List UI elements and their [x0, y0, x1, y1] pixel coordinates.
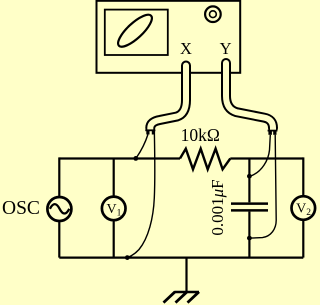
oscilloscope body [97, 1, 241, 73]
Y shield wire [251, 135, 277, 238]
junction node A (X pin to top wire) [133, 156, 138, 161]
resistor R 10k zigzag [180, 149, 230, 170]
voltmeter V2 [292, 196, 316, 220]
junction node C (Y pin to capacitor top) [247, 174, 252, 179]
wire: top horizontal (right of resistor) [230, 157, 303, 159]
wire: top horizontal (left of resistor) [59, 157, 180, 159]
svg-text:OSC: OSC [2, 198, 40, 219]
junction node B (X shield to bottom wire) [125, 255, 130, 260]
X probe cable [150, 66, 186, 132]
Y probe cable [226, 63, 273, 131]
wire: capacitor branch bottom [248, 212, 250, 258]
wire: right edge / V2 branch top [302, 157, 304, 195]
knob [205, 6, 221, 22]
X probe connector [145, 129, 155, 134]
svg-text:0.001μF: 0.001μF [208, 179, 227, 235]
wire: left branch bottom [58, 222, 60, 258]
sine wave [50, 204, 69, 213]
voltmeter V1 [102, 197, 126, 221]
Y pin wire [251, 135, 271, 176]
capacitor C plates [231, 204, 268, 211]
svg-text:X: X [180, 39, 192, 58]
Lissajous ellipse [114, 10, 156, 51]
X pin wire [137, 135, 148, 158]
wire: capacitor branch top [248, 159, 250, 203]
wire: V1 branch bottom [113, 221, 115, 258]
wire: left branch top (to OSC) [58, 157, 60, 196]
oscilloscope screen [105, 10, 168, 55]
wire: bottom horizontal [59, 257, 303, 259]
Y probe connector [268, 130, 278, 135]
wire: V1 branch top [113, 159, 115, 197]
chassis ground [164, 292, 200, 303]
ground stem [185, 258, 187, 292]
svg-text:10kΩ: 10kΩ [181, 125, 220, 145]
svg-text:Y: Y [220, 39, 232, 58]
junction node D (Y shield to capacitor bottom) [247, 236, 252, 241]
wire: right edge / V2 branch bottom [302, 221, 304, 258]
oscillator OSC circle [47, 197, 71, 221]
X shield wire [128, 135, 155, 258]
